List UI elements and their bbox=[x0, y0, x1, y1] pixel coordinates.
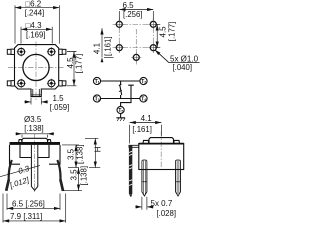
svg-text:7.9 [.311]: 7.9 [.311] bbox=[10, 212, 42, 221]
svg-text:1.5: 1.5 bbox=[53, 94, 65, 103]
terminal T2 bbox=[140, 77, 147, 84]
clip tip taper bbox=[129, 194, 132, 196]
svg-text:[.059]: [.059] bbox=[50, 103, 70, 112]
svg-text:[.138]: [.138] bbox=[75, 144, 84, 164]
dim 3.5 upper right bbox=[62, 145, 79, 168]
svg-text:4.5: 4.5 bbox=[159, 26, 168, 38]
svg-text:H: H bbox=[94, 146, 103, 152]
dim 1.5 bottom bbox=[24, 98, 48, 105]
hole center lines bbox=[113, 18, 161, 65]
bottom locating tab inner lines bbox=[31, 89, 41, 97]
dim 7.9 bottom bbox=[3, 194, 66, 223]
svg-text:T4: T4 bbox=[141, 97, 146, 103]
dim H right bbox=[85, 138, 100, 167]
wire bottom pole bbox=[101, 98, 140, 100]
svg-text:[.138]: [.138] bbox=[24, 124, 44, 133]
terminal T3 bbox=[93, 95, 100, 102]
ground clip arm bbox=[129, 145, 139, 147]
dim 4.5 right bbox=[156, 24, 160, 47]
svg-text:[.138]: [.138] bbox=[80, 166, 89, 186]
svg-text:T1: T1 bbox=[95, 79, 100, 85]
terminal T1 bbox=[93, 77, 100, 84]
svg-text:6.5: 6.5 bbox=[123, 1, 135, 10]
hole crosshairs bbox=[114, 19, 158, 62]
button cap bbox=[22, 138, 48, 142]
svg-text:[.161]: [.161] bbox=[132, 125, 152, 134]
svg-text:3.5: 3.5 bbox=[70, 169, 79, 181]
dim 3.5 lower right bbox=[62, 168, 82, 191]
center stem bbox=[31, 145, 37, 190]
svg-text:□6.2: □6.2 bbox=[25, 0, 42, 8]
callout 0.3 leg thickness bbox=[0, 165, 40, 176]
rivet top-right bbox=[47, 47, 56, 56]
body outline bbox=[15, 45, 59, 97]
clip hatch marks bbox=[129, 151, 132, 185]
rivet bumps bbox=[19, 140, 51, 142]
terminal T5 bbox=[117, 106, 124, 113]
right leg bbox=[57, 160, 60, 181]
ground hole bbox=[133, 54, 139, 60]
left pin bbox=[142, 160, 147, 196]
svg-text:[.040]: [.040] bbox=[173, 63, 193, 72]
center line bbox=[34, 134, 36, 194]
wire top pole bbox=[101, 80, 140, 82]
rivet bottom-left bbox=[17, 79, 26, 88]
center lines bbox=[8, 42, 65, 101]
svg-text:[.244]: [.244] bbox=[25, 8, 45, 17]
chassis ground bbox=[116, 114, 125, 118]
left leg bbox=[9, 160, 12, 181]
svg-text:□4.3: □4.3 bbox=[26, 21, 43, 30]
svg-text:[.256]: [.256] bbox=[123, 10, 143, 19]
top plate bbox=[10, 142, 61, 145]
ground clip vertical bbox=[129, 145, 132, 194]
side tabs bbox=[7, 49, 66, 86]
body bbox=[139, 144, 184, 170]
svg-text:[.028]: [.028] bbox=[157, 209, 177, 218]
svg-text:[.169]: [.169] bbox=[26, 30, 46, 39]
dim 5x 0.7 bottom bbox=[135, 197, 154, 210]
rivet bumps bbox=[143, 140, 180, 143]
svg-text:6.5 [.256]: 6.5 [.256] bbox=[12, 200, 45, 209]
center button circle bbox=[23, 54, 49, 80]
terminal T4 bbox=[140, 95, 147, 102]
dim dia 3.5 bbox=[15, 134, 54, 138]
svg-text:T2: T2 bbox=[141, 79, 146, 85]
rivet top-left bbox=[17, 47, 26, 56]
dim 6.5 bbox=[119, 10, 153, 21]
svg-text:[.177]: [.177] bbox=[168, 22, 177, 42]
svg-text:T5: T5 bbox=[118, 108, 123, 114]
svg-text:4.1: 4.1 bbox=[92, 42, 101, 54]
svg-text:T3: T3 bbox=[95, 97, 100, 103]
svg-text:0.3: 0.3 bbox=[17, 164, 31, 176]
svg-text:5x 0.7: 5x 0.7 bbox=[151, 199, 173, 208]
right pin bbox=[176, 160, 181, 196]
svg-text:[.177]: [.177] bbox=[75, 54, 84, 74]
dim 4.3 bbox=[21, 27, 52, 44]
callout 5x dia 1.0 leader bbox=[155, 50, 200, 63]
dim 6.5 bottom bbox=[7, 194, 60, 211]
dim 4.1 top bbox=[130, 123, 162, 144]
dim 4.5 right side bbox=[67, 52, 77, 86]
mounting holes 4x bbox=[116, 21, 156, 60]
cap bump bbox=[149, 138, 174, 144]
svg-text:4.1: 4.1 bbox=[141, 114, 153, 123]
base body sides bbox=[10, 145, 61, 164]
svg-text:3.5: 3.5 bbox=[66, 148, 75, 160]
switch contact lever bbox=[120, 81, 122, 99]
dim 6.2 bbox=[15, 5, 59, 43]
dim 4.1 left bbox=[101, 28, 114, 62]
svg-text:[.161]: [.161] bbox=[104, 36, 113, 56]
rivet bottom-right bbox=[47, 79, 56, 88]
base recess bbox=[20, 145, 49, 158]
case connection wire bbox=[121, 85, 134, 106]
svg-text:Ø3.5: Ø3.5 bbox=[24, 115, 42, 124]
svg-text:[.012]: [.012] bbox=[8, 175, 31, 190]
center line bbox=[160, 132, 162, 168]
